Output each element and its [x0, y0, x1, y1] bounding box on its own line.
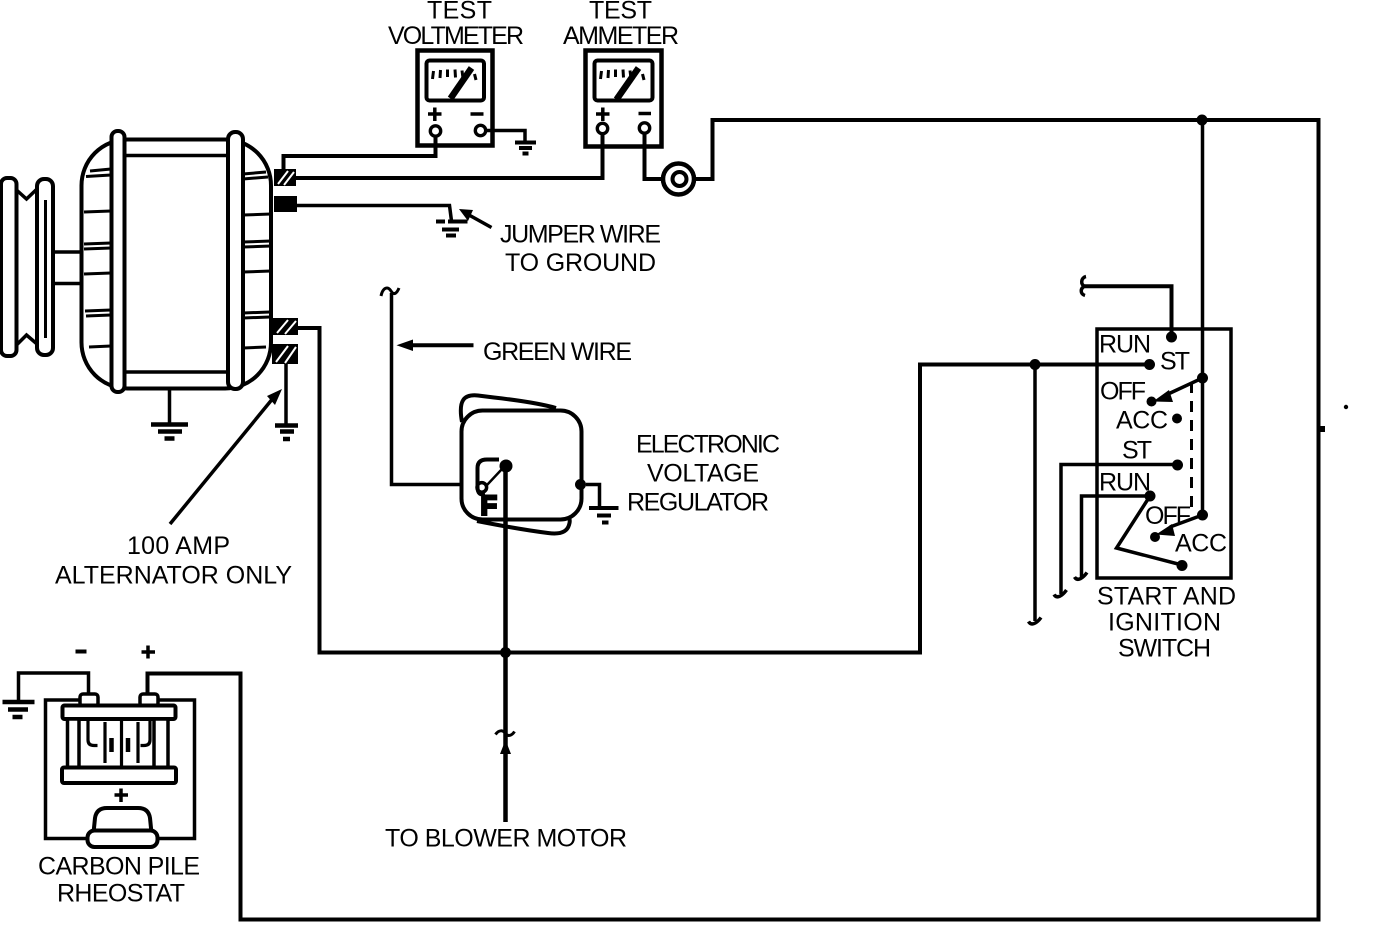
svg-text:TO GROUND: TO GROUND — [505, 249, 656, 277]
ground at voltmeter minus — [486, 131, 536, 154]
node RUN2 — [1145, 491, 1156, 502]
test ammeter — [586, 51, 662, 147]
regulator right terminal node — [575, 479, 586, 490]
svg-text:F: F — [481, 492, 496, 520]
wire BAT terminal to ammeter plus — [296, 134, 603, 178]
node ACC1 — [1172, 414, 1182, 424]
svg-text:RUN: RUN — [1099, 469, 1151, 497]
battery minus sign — [76, 650, 87, 654]
alternator right fins — [243, 172, 271, 348]
jumper ground symbol — [436, 222, 468, 236]
speck — [1344, 405, 1348, 409]
wire ST2 with hook — [1061, 465, 1177, 595]
regulator F terminal boot — [478, 460, 500, 495]
switch feed wire — [1085, 286, 1172, 333]
blower motor wire — [496, 466, 515, 822]
terminal field stud (upper) — [273, 318, 298, 335]
battery right post — [140, 694, 158, 706]
alternator left fins — [84, 169, 111, 347]
node OFF pivot — [1197, 373, 1208, 384]
svg-text:ALTERNATOR ONLY: ALTERNATOR ONLY — [55, 562, 292, 590]
battery left post — [80, 694, 98, 706]
node OFF2 — [1150, 532, 1160, 542]
ignition switch box — [1097, 329, 1231, 578]
node ACC2 — [1177, 560, 1188, 571]
alternator shaft — [53, 252, 82, 284]
svg-text:100 AMP: 100 AMP — [127, 532, 230, 560]
alternator ground — [151, 389, 188, 439]
regulator small terminal circle — [477, 483, 487, 493]
battery right pillar — [154, 719, 168, 768]
svg-text:REGULATOR: REGULATOR — [627, 489, 769, 517]
regulator F node — [500, 460, 513, 473]
wire connector to top rail, right rail, bottom rail, to battery plus — [148, 120, 1319, 920]
svg-text:ACC: ACC — [1175, 530, 1227, 558]
junction node top rail — [1197, 115, 1208, 126]
svg-text:ST: ST — [1160, 348, 1190, 376]
svg-text:TO BLOWER MOTOR: TO BLOWER MOTOR — [385, 825, 627, 853]
dashed link — [1190, 382, 1193, 508]
terminal field stud (lower) — [272, 344, 298, 364]
voltage regulator body — [462, 411, 582, 520]
svg-text:IGNITION: IGNITION — [1108, 609, 1221, 637]
alternator pulley — [1, 178, 53, 356]
svg-text:OFF: OFF — [1145, 502, 1191, 530]
svg-text:CARBON PILE: CARBON PILE — [38, 853, 200, 881]
test voltmeter — [418, 51, 493, 146]
wire voltmeter plus to BAT terminal — [284, 136, 436, 169]
svg-text:JUMPER WIRE: JUMPER WIRE — [500, 221, 661, 249]
svg-text:ACC: ACC — [1116, 407, 1168, 435]
battery minus ground — [3, 702, 35, 717]
switch feed wire hook — [1081, 277, 1086, 296]
wire ammeter minus to connector — [645, 134, 664, 180]
carbon pile plus sign — [115, 789, 129, 803]
carbon pile base — [88, 831, 158, 848]
svg-text:ELECTRONIC: ELECTRONIC — [636, 431, 780, 459]
switch arm lower — [1156, 515, 1203, 536]
carbon pile dome — [94, 808, 152, 833]
wire field stud to lower rail to switch ST — [298, 328, 1145, 653]
svg-text:VOLTAGE: VOLTAGE — [647, 460, 759, 488]
switch arm upper — [1153, 378, 1203, 402]
wire top rail down to switch OFF pivot — [1201, 120, 1205, 515]
carbon pile frame — [46, 700, 195, 839]
arrow for 100 AMP label — [170, 389, 282, 524]
battery bottom cap — [62, 768, 176, 784]
svg-text:TEST: TEST — [427, 0, 492, 25]
svg-text:RHEOSTAT: RHEOSTAT — [57, 880, 185, 908]
node OFF2 pivot — [1197, 510, 1208, 521]
connector D — [663, 164, 694, 195]
battery cells — [88, 720, 150, 766]
svg-text:VOLTMETER: VOLTMETER — [388, 22, 524, 50]
node OFF1 — [1147, 397, 1157, 407]
terminal GND stud — [274, 196, 297, 212]
svg-text:RUN: RUN — [1099, 331, 1151, 359]
switch arm V — [1117, 496, 1183, 565]
junction node switch feed — [1030, 359, 1041, 370]
green wire break squiggle — [381, 288, 399, 296]
junction node blower — [500, 647, 511, 658]
ground at lower terminal — [275, 364, 298, 439]
node ST1 — [1144, 359, 1155, 370]
svg-text:GREEN WIRE: GREEN WIRE — [483, 338, 632, 366]
svg-text:OFF: OFF — [1100, 378, 1146, 406]
wire RUN2 with hook — [1082, 496, 1151, 577]
alternator body — [82, 140, 272, 389]
node ST2 — [1172, 460, 1183, 471]
regulator terminal link — [487, 469, 502, 485]
regulator ground symbol — [589, 508, 619, 523]
node ST upper feed — [1166, 332, 1177, 343]
terminal BAT (output stud) — [274, 169, 296, 186]
battery minus wire — [19, 673, 89, 700]
battery top cap — [63, 706, 176, 720]
tick on right rail — [1318, 426, 1325, 432]
svg-text:TEST: TEST — [589, 0, 652, 25]
jumper wire from GND terminal — [297, 206, 452, 222]
arrow green wire label — [397, 340, 474, 352]
svg-text:AMMETER: AMMETER — [563, 22, 679, 50]
green wire — [392, 293, 478, 485]
voltage regulator back plate — [461, 395, 570, 533]
wire branch down with hook — [1033, 365, 1037, 622]
alternator right band — [228, 132, 243, 389]
battery plus sign — [142, 646, 156, 659]
battery left pillar — [68, 719, 80, 768]
regulator ground wire — [586, 485, 600, 508]
svg-text:ST: ST — [1122, 437, 1152, 465]
svg-text:SWITCH: SWITCH — [1118, 635, 1211, 663]
svg-text:START AND: START AND — [1097, 583, 1236, 611]
arrow jumper wire label — [459, 209, 492, 228]
alternator left band — [112, 131, 125, 392]
